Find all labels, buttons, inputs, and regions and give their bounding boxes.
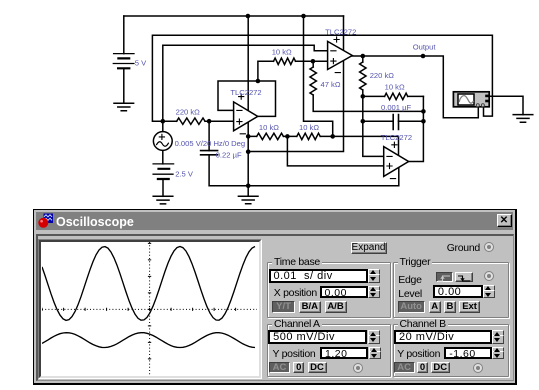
capacitor C2 0.001uF — [393, 115, 398, 130]
svg-text:0.001 µF: 0.001 µF — [381, 103, 411, 112]
battery V1 5V — [113, 54, 134, 69]
svg-text:10 kΩ: 10 kΩ — [259, 123, 279, 132]
op-amp U3 TLC2272 — [384, 142, 409, 178]
svg-text:10 kΩ: 10 kΩ — [272, 47, 292, 56]
resistor 10k fb1 — [274, 58, 296, 64]
op-amp U2 TLC2272 — [328, 37, 353, 73]
wire — [313, 61, 423, 111]
svg-text:220 kΩ: 220 kΩ — [176, 108, 201, 117]
op-amp U1 TLC2272 — [234, 94, 258, 134]
wire — [162, 179, 164, 196]
svg-text:TLC2272: TLC2272 — [381, 133, 412, 142]
wire — [163, 120, 234, 122]
wire — [333, 136, 399, 155]
wire — [248, 167, 399, 186]
wire — [162, 121, 164, 164]
resistor 10k div1 — [257, 133, 284, 139]
ground — [153, 196, 173, 204]
oscilloscope icon — [453, 92, 489, 107]
svg-text:47 kΩ: 47 kΩ — [321, 80, 341, 89]
wire — [363, 96, 384, 156]
svg-text:5 V: 5 V — [135, 59, 147, 68]
wire — [304, 16, 333, 136]
battery V2 2.5V — [153, 164, 174, 179]
svg-text:0.22 µF: 0.22 µF — [216, 151, 242, 160]
wire — [123, 16, 125, 103]
resistor 47k — [310, 67, 316, 95]
wire — [362, 56, 364, 96]
wire — [163, 45, 328, 121]
wire — [409, 96, 424, 161]
svg-text:0.005 V/20 Hz/0 Deg: 0.005 V/20 Hz/0 Deg — [175, 139, 246, 148]
resistor 220k fb — [360, 62, 366, 90]
wire — [218, 81, 276, 116]
svg-text:220 kΩ: 220 kΩ — [370, 71, 395, 80]
resistor 10k fb2 — [385, 93, 408, 99]
wire — [248, 16, 343, 152]
junction dots — [161, 14, 426, 188]
scope graticule — [42, 242, 257, 375]
wire — [124, 15, 344, 17]
wire — [287, 136, 383, 166]
oscilloscope window — [33, 209, 517, 385]
AC source V3 — [153, 132, 172, 151]
wire — [209, 121, 248, 186]
waveform channel A — [42, 247, 255, 321]
svg-text:TLC2272: TLC2272 — [230, 88, 261, 97]
wire — [352, 56, 478, 118]
resistor 220k input — [177, 118, 205, 124]
ground — [114, 103, 134, 111]
wire — [490, 96, 523, 114]
wire — [248, 135, 333, 137]
labels — [135, 27, 437, 178]
wire — [363, 95, 424, 97]
ground — [238, 196, 258, 204]
svg-text:2.5 V: 2.5 V — [175, 170, 194, 179]
capacitor C1 0.22uF — [201, 151, 218, 155]
wire — [258, 61, 328, 81]
resistor 10k div2 — [297, 133, 320, 139]
svg-text:TLC2272: TLC2272 — [325, 27, 356, 36]
svg-text:10 kΩ: 10 kΩ — [299, 123, 319, 132]
svg-text:Output: Output — [413, 43, 437, 52]
wire — [247, 16, 249, 196]
ground — [513, 115, 533, 123]
svg-text:10 kΩ: 10 kΩ — [385, 82, 405, 91]
wire — [152, 35, 492, 121]
waveform channel B — [42, 333, 255, 348]
wire — [363, 120, 424, 122]
